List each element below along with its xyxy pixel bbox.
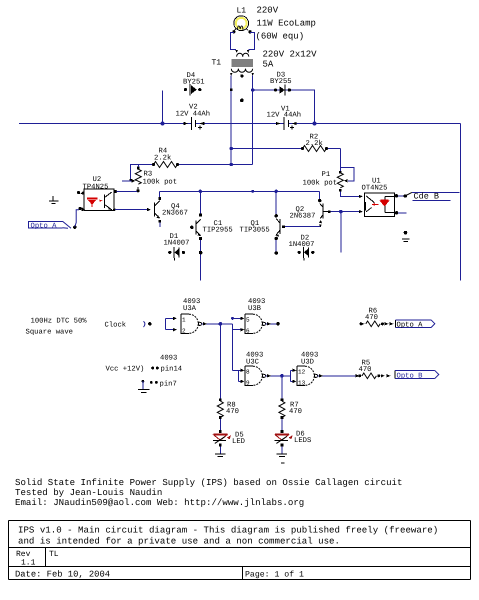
svg-text:BY251: BY251 [183, 79, 205, 87]
title block date and page [15, 570, 304, 580]
power note Vcc +12V pin14 [106, 365, 183, 374]
svg-text:2: 2 [182, 327, 186, 334]
svg-text:pin7: pin7 [160, 380, 177, 389]
LED D5 [213, 430, 231, 446]
junction dot Q1 collector [275, 190, 278, 193]
label R8 470 [226, 402, 239, 417]
arrow down (dangling) [129, 179, 132, 182]
ground below U1 [402, 239, 410, 242]
svg-text:BY255: BY255 [270, 78, 292, 86]
wire U1 collector to Cde B flag [398, 195, 404, 197]
gate U3B (4093 NAND) [245, 314, 266, 334]
svg-text:pin14: pin14 [161, 365, 183, 374]
arrow into Q4 base [147, 208, 151, 211]
wire stubs to gate U3B inputs [231, 317, 244, 332]
svg-text:LED: LED [232, 438, 245, 446]
clock source text [26, 318, 88, 337]
svg-text:TL: TL [49, 550, 59, 559]
junction dot left leg y90 [230, 88, 233, 91]
flag Cde B [406, 192, 460, 202]
svg-text:470: 470 [289, 408, 302, 416]
svg-text:P1: P1 [322, 171, 331, 179]
svg-text:Date: Feb 10, 2004: Date: Feb 10, 2004 [15, 570, 110, 580]
transistor Q3 [190, 214, 202, 241]
wire bracket gate U3D inputs [290, 369, 296, 384]
svg-text:Square wave: Square wave [26, 329, 73, 337]
svg-text:Opto B: Opto B [397, 372, 424, 380]
wire LED D5 to ground [219, 446, 221, 453]
svg-text:2N3667: 2N3667 [162, 210, 188, 218]
ground gate C LED column [277, 454, 288, 463]
wire R7 to LED D6 [281, 419, 283, 431]
svg-text:220V 2x12V: 220V 2x12V [263, 50, 318, 60]
svg-text:470: 470 [365, 314, 378, 322]
label V1 12V 44Ah [267, 106, 302, 120]
wire transformer right leg [252, 76, 254, 165]
svg-text:13: 13 [298, 379, 306, 386]
svg-text:IPS v1.0 - Main circuit diagra: IPS v1.0 - Main circuit diagram - This d… [18, 525, 438, 536]
lamp value 220V 11W EcoLamp (60W equ) [256, 6, 316, 42]
ground clock LED column [215, 454, 226, 457]
svg-text:U3D: U3D [301, 359, 314, 367]
label R5 470 [359, 360, 372, 375]
diode D3 [274, 84, 291, 95]
wire Q3 collector stub [199, 191, 201, 214]
gate U3A (4093 NAND) [181, 314, 202, 334]
svg-text:220V: 220V [257, 6, 279, 16]
battery V2 [184, 117, 205, 130]
wire gate U3D output to R5 [318, 375, 360, 377]
wire P1 bottom to U1 [340, 192, 359, 197]
label 4093 U3A [183, 298, 200, 313]
wire Q1 collector stub [275, 191, 277, 215]
transformer value 220V 2x12V 5A [263, 50, 318, 70]
junction dot bus at D3 branch [313, 122, 317, 126]
svg-text:U3C: U3C [246, 359, 260, 367]
wire down to R7 column [281, 376, 283, 400]
wire R3 wiper [122, 180, 132, 182]
diode D2 (floating) [298, 247, 315, 260]
wire Q2 collector stub [319, 191, 321, 200]
title block frame [9, 548, 471, 580]
label Q3 TIP2955 [203, 220, 233, 235]
diode D4 [184, 84, 202, 95]
freeware note text [18, 525, 438, 547]
wire U2 emitter to Q4 base [115, 209, 147, 211]
gate U3C (4093 NAND) [245, 366, 266, 386]
wire stub from bus up (left of D4) [162, 90, 164, 123]
svg-text:L1: L1 [237, 7, 247, 16]
flag Opto A input [29, 210, 80, 231]
label 4093 U3B [248, 298, 265, 313]
label D1 1N4007 [164, 233, 190, 248]
junction dot Q2 base row [339, 210, 343, 214]
svg-text:Opto A: Opto A [31, 222, 58, 230]
flag Opto A receive [390, 320, 435, 330]
wire R4 row left arm down to arrow [131, 165, 139, 180]
label R3 100k pot [143, 171, 178, 187]
LED D6 [275, 430, 293, 446]
wire lamp left to transformer primary [231, 33, 237, 50]
svg-text:12V 44Ah: 12V 44Ah [267, 111, 302, 120]
svg-text:2.2k: 2.2k [154, 154, 171, 163]
svg-text:2.2k: 2.2k [306, 139, 323, 148]
svg-text:470: 470 [359, 366, 372, 374]
label R7 470 [289, 402, 302, 417]
gate U3D (4093 NAND) [297, 366, 318, 386]
notes box sides [9, 521, 471, 548]
svg-text:8: 8 [246, 368, 250, 375]
diode D1 (floating) [168, 247, 185, 260]
node center tap dot [240, 99, 244, 103]
svg-text:U3B: U3B [248, 305, 262, 313]
svg-text:12V 44Ah: 12V 44Ah [176, 110, 211, 119]
label D3 BY255 [270, 72, 292, 87]
wire R4 row [138, 164, 252, 166]
svg-text:TIP3055: TIP3055 [240, 227, 270, 235]
wire lamp right to transformer primary [249, 33, 255, 50]
transistor Q2 [318, 199, 331, 227]
clock flag point [144, 321, 152, 327]
arrow gate U3D output [319, 374, 323, 377]
svg-text:Email: JNaudin509@aol.com We: Email: JNaudin509@aol.com Web: http://ww… [15, 497, 304, 508]
wire right edge vertical [459, 124, 461, 281]
wire main bus [19, 123, 460, 125]
junction dot Q3 collector [199, 190, 202, 193]
svg-text:Opto A: Opto A [397, 321, 424, 329]
ground near U2 [49, 196, 59, 203]
label Q1 TIP3055 [240, 220, 270, 235]
svg-text:and is intended for a private: and is intended for a private use and a … [18, 536, 340, 547]
power note pin7 with ground [138, 380, 177, 393]
wire gate1 output row [202, 323, 233, 325]
junction dot on bus [161, 122, 165, 126]
wire R3 top stub [137, 165, 139, 168]
wire down to R8 column [219, 324, 221, 400]
label U1 OT4N25 [362, 178, 388, 193]
notes box rule top [9, 520, 471, 522]
arrow gate U3C output [267, 374, 271, 377]
svg-text:100k pot: 100k pot [303, 179, 338, 188]
svg-text:1N4007: 1N4007 [164, 240, 190, 248]
label R4 2.2k [154, 148, 171, 163]
notes text block [15, 477, 402, 508]
svg-text:5A: 5A [263, 60, 274, 70]
potentiometer R3 [132, 167, 142, 192]
svg-text:1: 1 [182, 316, 186, 323]
junction dot gate1 output [219, 322, 223, 326]
wire Q4 collector stub [159, 191, 161, 197]
svg-text:1.1: 1.1 [21, 559, 36, 568]
node dot below U1 [404, 231, 408, 235]
node Q1 emitter end dot [274, 251, 278, 255]
battery V1 [276, 117, 297, 130]
wire down feed to gates B and C [232, 324, 234, 371]
svg-text:Cde B: Cde B [414, 192, 440, 202]
wire U2 collector out (ends with tick) [117, 191, 138, 193]
svg-text:2N6387: 2N6387 [290, 213, 316, 221]
svg-text:TIP2955: TIP2955 [203, 227, 233, 235]
label Q4 2N3667 [162, 203, 188, 218]
transformer T1 [230, 50, 254, 77]
optocoupler U2 [77, 189, 117, 211]
junction dot gate U3C output [280, 374, 284, 378]
wire stub down from Q2 base node (dangling) [340, 212, 342, 253]
title block rev cell [16, 550, 59, 568]
svg-text:5: 5 [246, 316, 250, 323]
wire U1 emitter out (dangling) [398, 212, 406, 214]
svg-text:LEDS: LEDS [294, 437, 311, 445]
svg-text:(60W equ): (60W equ) [256, 32, 305, 42]
svg-text:T1: T1 [212, 59, 222, 68]
wire transformer left leg [230, 76, 232, 165]
svg-text:1N4007: 1N4007 [289, 241, 315, 249]
resistor R7 (gate C LED column) [279, 399, 285, 419]
junction dot on Q3 emitter line [199, 251, 203, 255]
svg-text:Vcc +12V): Vcc +12V) [106, 365, 145, 374]
wire Q4 emitter stub (dangling) [159, 223, 161, 227]
wire Q1 base row [285, 226, 321, 228]
wire Q2 base row to U1 [331, 211, 359, 213]
wire R8 to LED D5 [219, 419, 221, 431]
label D5 LED [232, 432, 245, 447]
transistor Q1 [275, 214, 285, 240]
label R2 2.2k [306, 134, 323, 149]
svg-text:4093: 4093 [160, 355, 177, 363]
wire gate U3C output [266, 375, 291, 377]
svg-text:9: 9 [246, 379, 250, 386]
wire R2 row [231, 149, 354, 181]
label R6 470 [365, 308, 378, 323]
svg-text:100k pot: 100k pot [143, 178, 178, 187]
svg-text:6: 6 [246, 327, 250, 334]
label Q2 2N6387 [290, 206, 316, 221]
tick at R3 bottom terminal [137, 187, 139, 193]
label U2 TP4N25 [83, 176, 109, 192]
junction dot left leg R2 row [230, 147, 233, 150]
label 4093 U3D [301, 352, 318, 367]
svg-text:11W EcoLamp: 11W EcoLamp [257, 19, 316, 29]
svg-text:470: 470 [226, 408, 239, 416]
resistor R2 [301, 146, 328, 152]
wire LED D6 to ground [281, 446, 283, 453]
junction dot right leg y90 [251, 88, 254, 91]
label D2 1N4007 [289, 235, 315, 250]
flag Opto B [387, 370, 439, 380]
transistor Q4 [155, 197, 162, 223]
arrow on gate1 output [203, 322, 207, 325]
label D6 LEDS [294, 431, 311, 446]
label V2 12V 44Ah [176, 104, 211, 119]
junction dot R4 leg [251, 190, 254, 193]
resistor R5 [356, 373, 385, 379]
resistor R6 to Opto A flag [360, 321, 389, 327]
wire collector node row y191 [160, 190, 320, 192]
wire D3 row [253, 90, 315, 124]
svg-text:TP4N25: TP4N25 [83, 184, 109, 192]
svg-text:Page: 1 of 1: Page: 1 of 1 [245, 571, 304, 580]
label D4 BY255 [183, 72, 205, 87]
svg-text:Clock: Clock [105, 321, 127, 330]
lamp L1 [232, 16, 251, 34]
node dot before flag [404, 194, 407, 197]
potentiometer P1 [337, 171, 347, 192]
optocoupler U1 [359, 193, 399, 216]
wire Q1 emitter down [275, 240, 277, 253]
svg-text:U3A: U3A [183, 305, 197, 313]
svg-text:12: 12 [298, 368, 306, 375]
arrow and dot gate U3B output [267, 322, 280, 326]
junction dot left leg R4 row [230, 163, 233, 166]
svg-text:R3: R3 [144, 171, 153, 179]
wire gate U3B output stub [266, 323, 277, 325]
wire gate1 input bracket [166, 317, 177, 332]
svg-text:100Hz DTC 50%: 100Hz DTC 50% [31, 318, 88, 326]
resistor R8 (clock LED column) [217, 399, 223, 419]
wire stubs to gate U3C inputs [233, 369, 245, 384]
resistor R4 [152, 162, 179, 168]
wire Q3 emitter down [200, 240, 202, 280]
label 4093 U3C [246, 352, 263, 367]
label P1 100k pot [303, 171, 338, 188]
svg-text:OT4N25: OT4N25 [362, 185, 388, 193]
